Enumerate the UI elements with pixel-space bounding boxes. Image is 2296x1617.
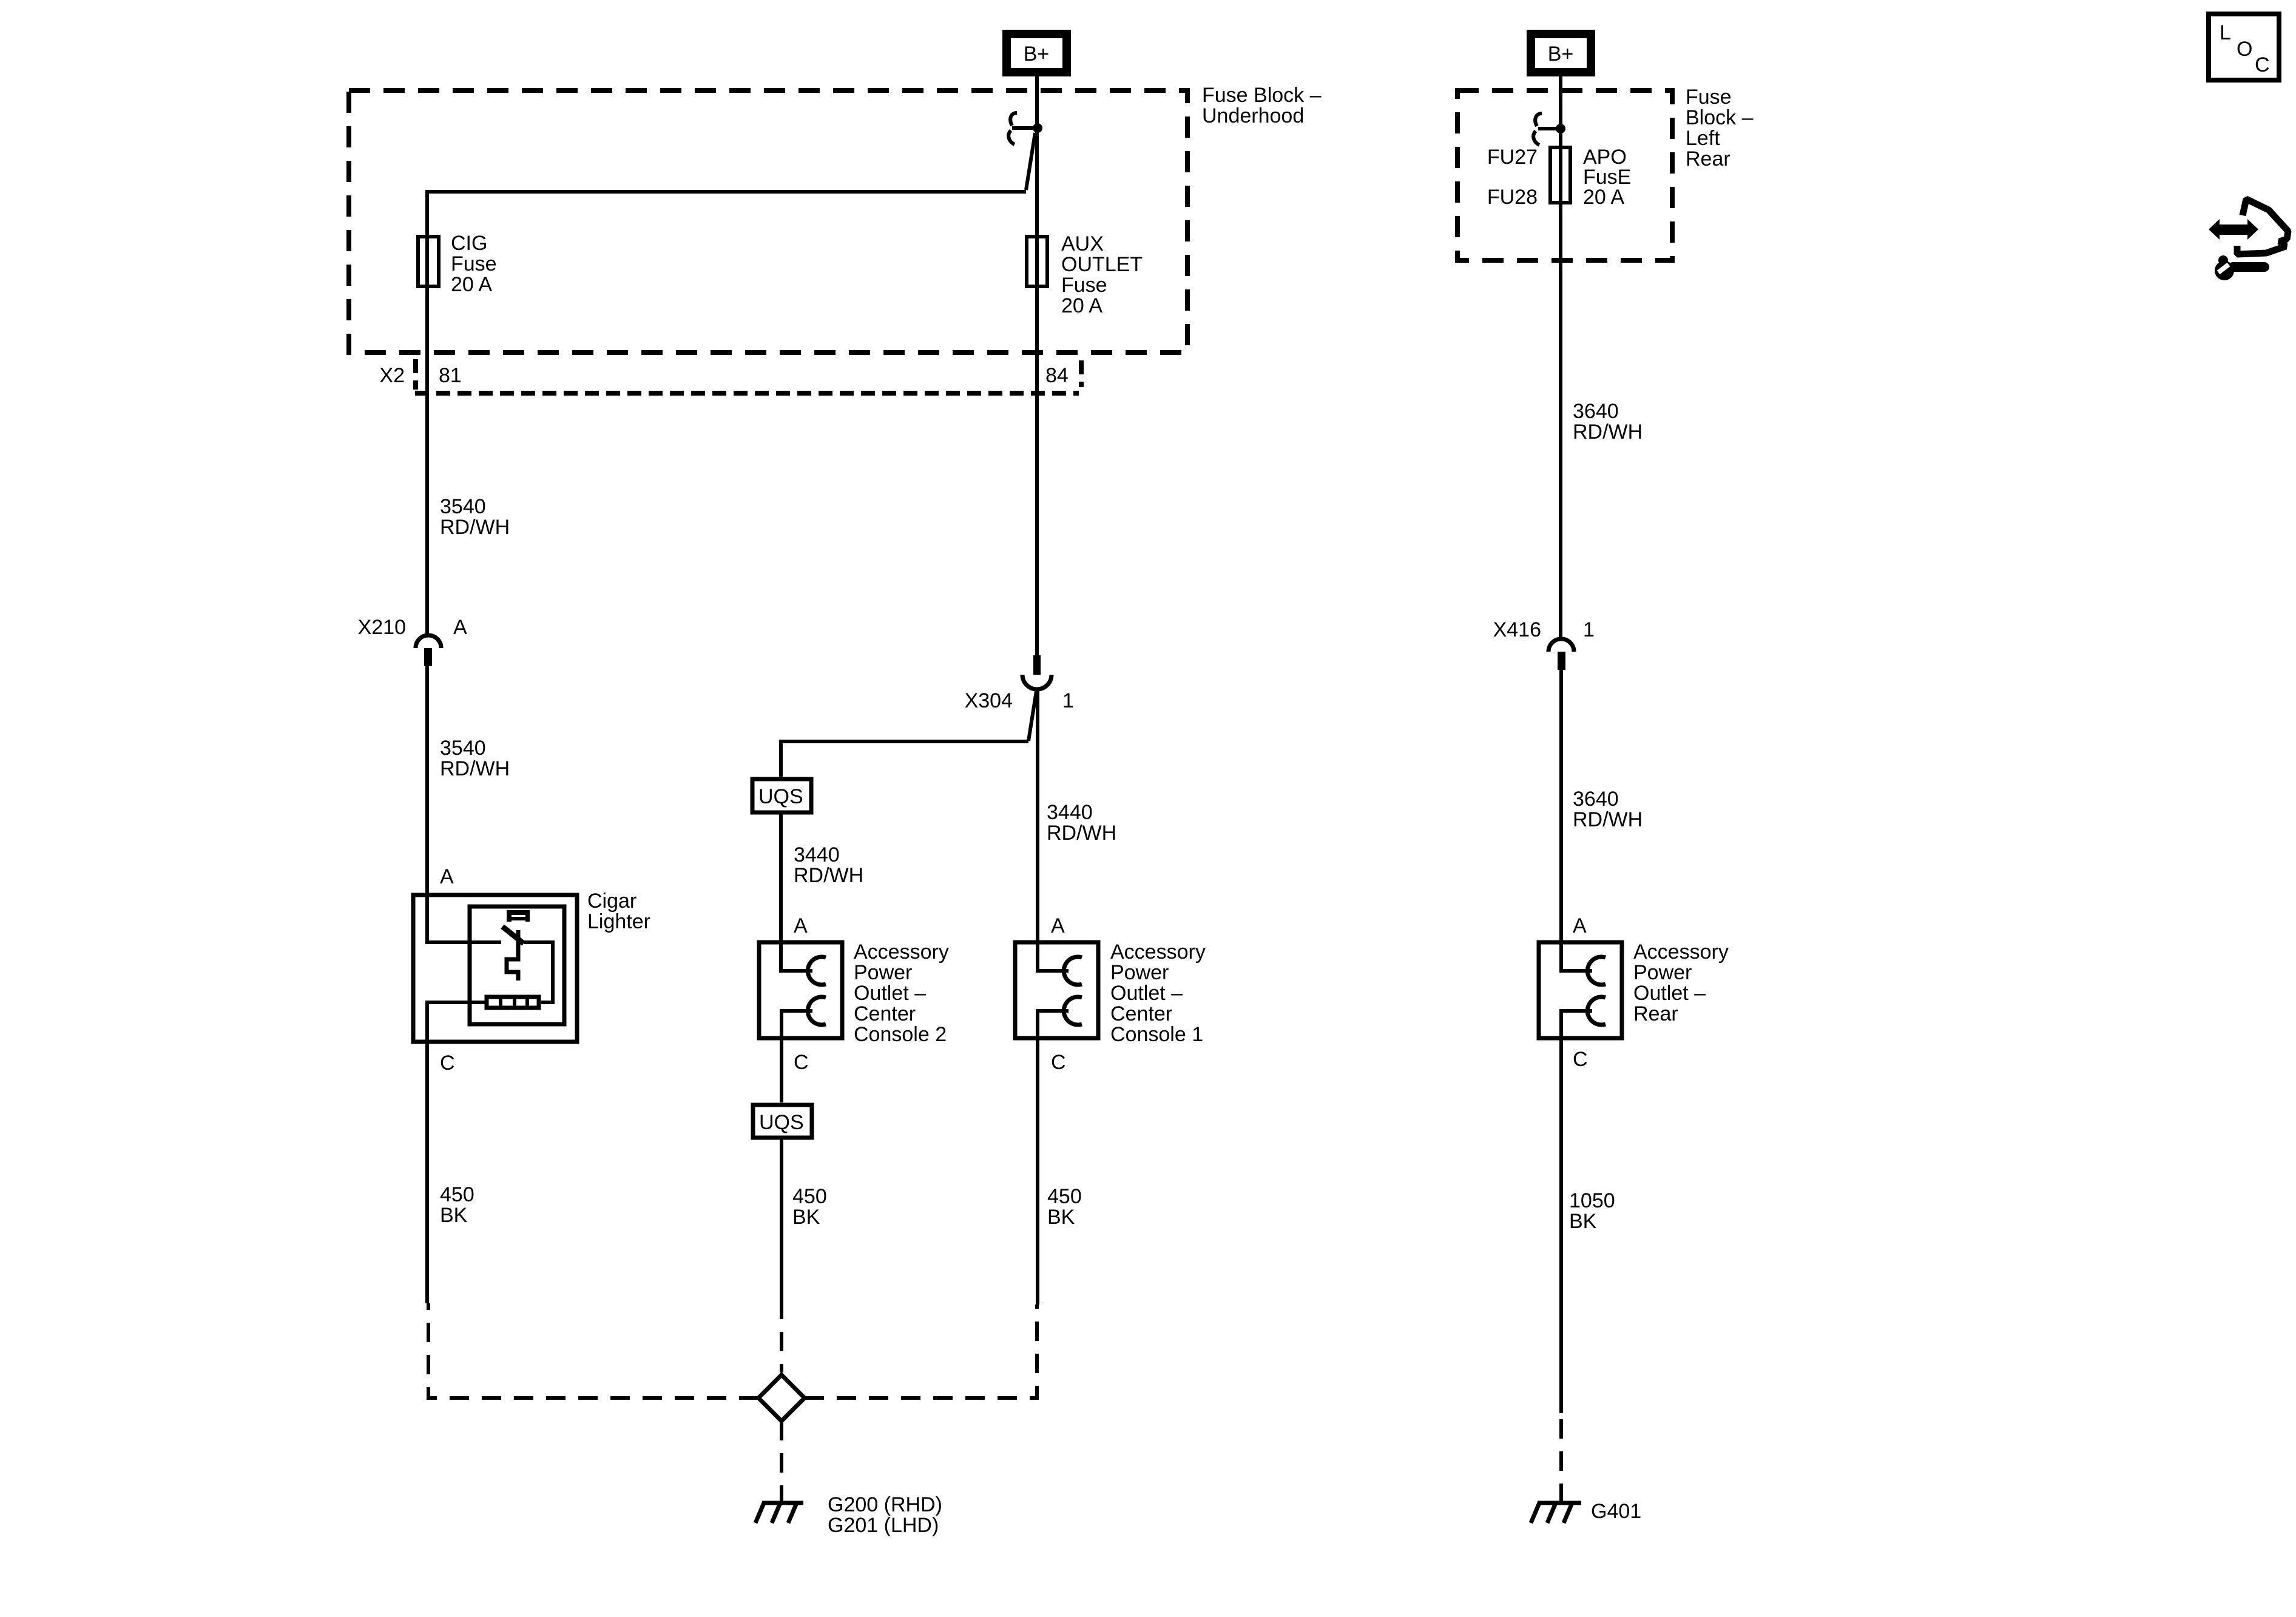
label FU27 xyxy=(1487,146,1538,169)
svg-text:450: 450 xyxy=(440,1183,474,1206)
svg-text:X210: X210 xyxy=(358,616,406,639)
svg-text:Outlet –: Outlet – xyxy=(1633,982,1706,1005)
svg-text:BK: BK xyxy=(792,1206,820,1229)
LOC reference box xyxy=(2209,14,2279,80)
wire X304 to outlet 1 xyxy=(1038,689,1069,971)
svg-text:A: A xyxy=(1051,914,1065,937)
svg-text:BK: BK xyxy=(1047,1206,1075,1229)
svg-text:BK: BK xyxy=(1569,1210,1597,1233)
wire branch to UQS outlet 2 xyxy=(781,741,1028,777)
power feed B+ terminal 2 xyxy=(1531,34,1591,72)
ground symbol G401 xyxy=(1531,1503,1581,1523)
svg-text:X416: X416 xyxy=(1493,618,1541,641)
accessory power outlet rear xyxy=(1539,942,1622,1413)
pin C label at rear outlet xyxy=(1573,1048,1588,1071)
svg-text:C: C xyxy=(794,1051,809,1074)
pin 81 label xyxy=(439,364,462,387)
connector X416 xyxy=(1548,639,1574,670)
svg-text:84: 84 xyxy=(1045,364,1069,387)
label FU28 xyxy=(1487,186,1538,209)
svg-text:Block –: Block – xyxy=(1686,106,1754,129)
label AUX OUTLET Fuse 20 A xyxy=(1061,232,1143,317)
svg-text:RD/WH: RD/WH xyxy=(440,757,510,780)
pin A label at outlet 1 xyxy=(1051,914,1065,937)
accessory power outlet center console 1 xyxy=(1015,942,1098,1305)
dashed wire to ground G401 xyxy=(1559,1413,1563,1503)
svg-text:Underhood: Underhood xyxy=(1202,104,1304,127)
svg-text:OUTLET: OUTLET xyxy=(1061,253,1143,276)
pin A label at outlet 2 xyxy=(794,914,808,937)
svg-text:A: A xyxy=(794,914,808,937)
pin 1 label at X304 xyxy=(1062,689,1074,712)
svg-text:G200 (RHD): G200 (RHD) xyxy=(828,1493,942,1516)
svg-text:FU28: FU28 xyxy=(1487,186,1538,209)
svg-text:B+: B+ xyxy=(1548,42,1574,66)
label X210 xyxy=(358,616,406,639)
svg-text:Fuse: Fuse xyxy=(1061,274,1107,297)
svg-text:450: 450 xyxy=(792,1185,827,1208)
wire 3440 RD/WH label left xyxy=(794,843,863,887)
wire 3640 RD/WH lower label xyxy=(1573,788,1643,831)
svg-text:20 A: 20 A xyxy=(451,273,492,296)
dashed ground wire right of diamond xyxy=(805,1305,1037,1398)
label X304 xyxy=(965,689,1013,712)
svg-text:G201 (LHD): G201 (LHD) xyxy=(828,1514,939,1537)
svg-text:Rear: Rear xyxy=(1633,1002,1678,1025)
accessory power outlet center console 2 xyxy=(759,942,842,1102)
label Accessory Power Outlet Center Console 1 xyxy=(1110,940,1206,1046)
svg-text:Rear: Rear xyxy=(1686,147,1730,170)
splice junction dot xyxy=(1033,123,1042,133)
svg-text:BK: BK xyxy=(440,1204,468,1227)
wire 450 BK label middle xyxy=(792,1185,827,1229)
svg-text:X2: X2 xyxy=(379,364,405,387)
clip symbol at underhood splice xyxy=(1008,113,1033,144)
label CIG Fuse 20 A xyxy=(451,232,497,296)
wire B+ feed 2 through APO fuse down to X416 xyxy=(1559,73,1562,639)
svg-text:3640: 3640 xyxy=(1573,400,1619,423)
label Fuse Block - Left Rear xyxy=(1686,86,1754,170)
svg-text:C: C xyxy=(1051,1051,1066,1074)
ground symbol G200/G201 xyxy=(755,1503,803,1523)
connector X304 xyxy=(1022,655,1052,689)
UQS option box 2 xyxy=(753,1105,812,1138)
svg-text:Fuse: Fuse xyxy=(1686,86,1732,109)
wire UQS to outlet 2 xyxy=(781,814,812,971)
svg-text:RD/WH: RD/WH xyxy=(440,516,510,539)
svg-text:G401: G401 xyxy=(1591,1500,1641,1523)
pin 84 label xyxy=(1045,364,1069,387)
svg-text:20 A: 20 A xyxy=(1583,186,1624,209)
wire branch to CIG fuse xyxy=(427,192,1026,635)
svg-text:A: A xyxy=(453,616,467,639)
label G401 xyxy=(1591,1500,1641,1523)
connector X2 dashed strip xyxy=(415,359,1081,393)
label X416 xyxy=(1493,618,1541,641)
svg-text:20 A: 20 A xyxy=(1061,294,1102,317)
fuse AUX OUTLET 20 A xyxy=(1027,237,1047,286)
dashed wire diamond to ground G200/G201 xyxy=(780,1421,783,1503)
svg-text:Outlet –: Outlet – xyxy=(1110,982,1183,1005)
svg-text:C: C xyxy=(440,1052,455,1075)
splice junction dot left rear xyxy=(1556,124,1565,133)
pin A label at rear outlet xyxy=(1573,914,1587,937)
pin C label at outlet 2 xyxy=(794,1051,809,1074)
service icon double arrow xyxy=(2209,219,2258,240)
pin C label at outlet 1 xyxy=(1051,1051,1066,1074)
svg-text:1050: 1050 xyxy=(1569,1189,1615,1212)
svg-text:1: 1 xyxy=(1062,689,1074,712)
connector X210 xyxy=(416,635,441,666)
svg-text:3440: 3440 xyxy=(1047,801,1093,824)
label Fuse Block - Underhood xyxy=(1202,84,1322,127)
svg-text:C: C xyxy=(2255,53,2270,76)
svg-text:RD/WH: RD/WH xyxy=(794,864,863,887)
svg-text:3440: 3440 xyxy=(794,843,840,866)
svg-text:3640: 3640 xyxy=(1573,788,1619,811)
svg-text:Center: Center xyxy=(1110,1002,1172,1025)
ground splice diamond xyxy=(758,1375,805,1421)
wire X416 to rear outlet xyxy=(1561,670,1592,971)
label Cigar Lighter xyxy=(587,890,650,933)
svg-text:AUX: AUX xyxy=(1061,232,1104,255)
dashed ground wire middle xyxy=(780,1300,783,1372)
svg-text:Console 2: Console 2 xyxy=(854,1023,947,1046)
wire diagonal from X304 to branch xyxy=(1028,691,1036,741)
svg-text:1: 1 xyxy=(1583,618,1595,641)
svg-text:RD/WH: RD/WH xyxy=(1573,808,1643,831)
label Accessory Power Outlet Rear xyxy=(1633,940,1729,1025)
svg-text:UQS: UQS xyxy=(759,1111,804,1134)
wire diagonal from splice to CIG branch xyxy=(1026,133,1035,190)
wire 1050 BK label xyxy=(1569,1189,1615,1233)
svg-text:FU27: FU27 xyxy=(1487,146,1538,169)
fuse block underhood dashed outline xyxy=(349,90,1187,353)
svg-text:Accessory: Accessory xyxy=(854,940,949,964)
label G200 (RHD) G201 (LHD) xyxy=(828,1493,942,1537)
svg-text:Left: Left xyxy=(1686,127,1720,150)
service icon wrench xyxy=(2215,255,2264,280)
svg-text:3540: 3540 xyxy=(440,495,486,518)
fuse block left rear dashed outline xyxy=(1457,90,1672,260)
svg-text:81: 81 xyxy=(439,364,462,387)
svg-text:Fuse Block –: Fuse Block – xyxy=(1202,84,1322,107)
pin 1 label at X416 xyxy=(1583,618,1595,641)
label Accessory Power Outlet Center Console 2 xyxy=(854,940,949,1046)
wire from cigar lighter C to ground run xyxy=(427,1002,485,1303)
svg-text:C: C xyxy=(1573,1048,1588,1071)
wire from X210 to cigar lighter xyxy=(427,666,501,942)
svg-text:Power: Power xyxy=(854,961,912,984)
clip symbol at left rear splice xyxy=(1533,113,1556,145)
wire 3640 RD/WH upper label xyxy=(1573,400,1643,444)
fuse CIG 20 A xyxy=(418,237,439,286)
wire 3440 RD/WH label right xyxy=(1047,801,1116,845)
svg-text:450: 450 xyxy=(1047,1185,1082,1208)
label X2 xyxy=(379,364,405,387)
wire B+ feed to AUX OUTLET fuse down to connector X304 xyxy=(1035,73,1039,655)
label APO FusE 20 A xyxy=(1583,146,1631,209)
fuse APO FusE 20 A (FU27/FU28) xyxy=(1550,147,1570,203)
svg-text:L: L xyxy=(2220,21,2231,44)
svg-text:X304: X304 xyxy=(965,689,1013,712)
wire 450 BK label left xyxy=(440,1183,474,1227)
svg-text:Center: Center xyxy=(854,1002,916,1025)
service icon connector outline xyxy=(2237,199,2288,254)
svg-text:Power: Power xyxy=(1110,961,1169,984)
svg-text:Accessory: Accessory xyxy=(1110,940,1206,964)
svg-text:B+: B+ xyxy=(1024,42,1050,66)
pin A label at cigar lighter xyxy=(440,865,454,888)
svg-text:RD/WH: RD/WH xyxy=(1573,420,1643,444)
svg-text:A: A xyxy=(440,865,454,888)
svg-text:O: O xyxy=(2237,38,2252,61)
pin C label at cigar lighter xyxy=(440,1052,455,1075)
wire 3540 RD/WH lower label xyxy=(440,737,510,780)
svg-text:Cigar: Cigar xyxy=(587,890,636,913)
UQS option box 1 xyxy=(752,779,811,812)
cigar lighter component xyxy=(413,895,577,1042)
svg-text:Outlet –: Outlet – xyxy=(854,982,926,1005)
wire 450 BK label right xyxy=(1047,1185,1082,1229)
svg-text:3540: 3540 xyxy=(440,737,486,760)
dashed ground wire from cigar lighter xyxy=(428,1303,758,1398)
pin A label at X210 xyxy=(453,616,467,639)
wire 3540 RD/WH upper label xyxy=(440,495,510,539)
svg-text:Lighter: Lighter xyxy=(587,910,650,933)
svg-text:A: A xyxy=(1573,914,1587,937)
svg-text:UQS: UQS xyxy=(758,785,803,808)
svg-text:Console 1: Console 1 xyxy=(1110,1023,1203,1046)
wire outlet 2 to ground run xyxy=(780,1139,783,1300)
svg-text:CIG: CIG xyxy=(451,232,487,255)
svg-text:Fuse: Fuse xyxy=(451,252,497,275)
svg-text:Power: Power xyxy=(1633,961,1692,984)
power feed B+ terminal 1 xyxy=(1007,34,1067,72)
svg-text:RD/WH: RD/WH xyxy=(1047,822,1116,845)
svg-text:Accessory: Accessory xyxy=(1633,940,1729,964)
